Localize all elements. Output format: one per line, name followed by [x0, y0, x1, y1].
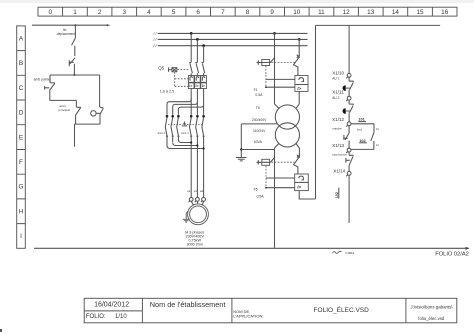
relay F5 magnetic box — [295, 174, 309, 182]
contactor km12 pole 1 — [166, 115, 169, 118]
svg-text:102: 102 — [359, 138, 366, 143]
terminal X1/13 — [347, 148, 351, 152]
svg-text:4: 4 — [147, 9, 151, 16]
fuse disconnect Q6 left pole — [257, 60, 271, 64]
svg-text:km1 1: km1 1 — [181, 131, 189, 135]
svg-text:stop bouton: stop bouton — [332, 153, 347, 157]
node junction on rail1 — [75, 24, 77, 26]
mech link dashed Q5 — [177, 69, 189, 71]
svg-text:X1/14: X1/14 — [333, 169, 345, 174]
node merge dots — [190, 141, 205, 149]
svg-text:u1: u1 — [187, 189, 191, 193]
relay F5 thermal box I> — [295, 182, 309, 190]
label 101 — [358, 117, 365, 122]
svg-text:10: 10 — [293, 9, 301, 16]
wire branch 102 bottom — [351, 148, 374, 150]
Q5 thermal trip boxes I> — [188, 83, 194, 89]
terminal X1/11 — [347, 96, 351, 100]
svg-text:X1/13: X1/13 — [332, 143, 344, 148]
svg-text:principal: principal — [59, 108, 71, 112]
svg-text:I>: I> — [202, 84, 205, 88]
svg-text:6: 6 — [196, 9, 200, 16]
label F1 — [254, 88, 264, 97]
label km12 — [158, 131, 166, 135]
key switch head — [91, 111, 96, 116]
mech link dashed secondary — [272, 161, 295, 163]
motor terminal V1 — [196, 198, 200, 202]
wire swap link pole2 — [173, 143, 198, 146]
contactor km11 pole 3 — [202, 115, 205, 118]
label Q5 — [158, 65, 164, 70]
label X1/12 — [332, 117, 344, 122]
label 110/24V — [253, 129, 266, 133]
wire trip line 3 — [266, 177, 295, 179]
svg-text:16/04/2012: 16/04/2012 — [94, 302, 129, 309]
svg-text:14: 14 — [392, 9, 400, 16]
title block table — [84, 298, 457, 323]
trip linkage dashed upper — [265, 66, 267, 87]
label X1/10 — [332, 71, 344, 76]
wire breaker outputs down — [191, 89, 203, 115]
svg-text:5: 5 — [172, 9, 176, 16]
wire control top rail — [316, 24, 441, 26]
emergency stop AU2 mushroom — [343, 108, 346, 114]
svg-text:F: F — [19, 159, 23, 166]
label pin 14 — [376, 144, 379, 147]
svg-text:G: G — [19, 184, 24, 191]
ground earth motor — [183, 219, 190, 222]
svg-text:12: 12 — [343, 9, 351, 16]
svg-text:v1: v1 — [194, 189, 198, 193]
wire chain drop — [348, 25, 350, 73]
svg-text:arrêt pointe: arrêt pointe — [34, 78, 50, 82]
wire cross branch to KM left pole1 — [167, 99, 191, 115]
pushbutton marche — [343, 126, 349, 149]
wire left branch — [49, 75, 51, 83]
source arrow marks L1 L2 L3 — [153, 32, 157, 47]
svg-text:13: 13 — [367, 9, 375, 16]
screenshot top band — [0, 0, 474, 3]
label arrêt pointe — [34, 78, 50, 82]
motor M1 double circle — [188, 204, 209, 225]
label AU 2 — [332, 96, 339, 100]
label X1/11 — [332, 90, 344, 95]
svg-text:FOLIO 02/A2: FOLIO 02/A2 — [435, 251, 469, 257]
Q5 magnetic trip boxes — [188, 76, 194, 83]
wire primary left — [275, 33, 279, 108]
breaker Q5 pole 2 — [195, 63, 198, 76]
svg-text:9: 9 — [270, 9, 274, 16]
wire phase L1 — [158, 32, 308, 34]
svg-text:7: 7 — [221, 9, 225, 16]
wire rail1 — [32, 24, 109, 26]
emergency stop AU1 mushroom — [343, 85, 346, 91]
mech interlock symbol — [182, 122, 186, 126]
label 63VA — [254, 140, 263, 144]
svg-text:w1: w1 — [200, 189, 204, 193]
contactor km12 pole 3 — [177, 115, 180, 118]
svg-text:16: 16 — [441, 9, 449, 16]
svg-text:0,5A: 0,5A — [257, 195, 265, 199]
label marche — [332, 127, 342, 131]
breaker Q5 pole 1 — [189, 63, 192, 76]
terminal X1/14 — [347, 172, 351, 176]
svg-text:I>: I> — [297, 86, 301, 91]
emergency stop AU1 contact — [349, 77, 353, 96]
wire ground to secondary — [241, 149, 274, 151]
wire tail — [74, 124, 76, 147]
pushbutton stop NC — [346, 152, 353, 172]
NC contact S4 arrêt principal — [76, 100, 81, 124]
transformer T6 secondary winding — [275, 123, 299, 147]
sheet column ruler 0-16 — [38, 7, 457, 16]
label X1/14 — [333, 169, 345, 174]
relay F1 thermal box I> — [295, 85, 308, 92]
motor terminal U1 — [189, 198, 193, 202]
wire rail3 — [75, 123, 101, 125]
svg-text:110/24V: 110/24V — [253, 129, 266, 133]
Q5 handle — [169, 67, 172, 72]
svg-text:déplacement: déplacement — [57, 32, 75, 36]
fuse disconnect F5 pole — [257, 160, 271, 164]
label fin déplacement — [57, 28, 75, 36]
node junction rail2 — [74, 74, 76, 76]
wire branch 101 top — [351, 123, 374, 125]
svg-text:101: 101 — [358, 117, 365, 122]
label 230/400V — [252, 118, 267, 122]
wire control feed — [299, 25, 315, 199]
svg-text:FOLIO_ÉLEC.VSD: FOLIO_ÉLEC.VSD — [314, 305, 370, 314]
node taps to Q5 — [190, 32, 205, 47]
svg-text:0: 0 — [49, 9, 53, 16]
svg-text:AU 2: AU 2 — [332, 96, 339, 100]
svg-text:63VA: 63VA — [254, 140, 263, 144]
wire cross branch to KM left pole3 — [178, 105, 203, 115]
relay F1 magnetic box — [295, 76, 308, 85]
key switch S5 — [100, 107, 104, 124]
switch X mark secondary — [297, 155, 300, 158]
label 1,6 à 2,5 — [160, 89, 174, 93]
wire Q5 drops — [191, 33, 203, 62]
label pin 13 — [376, 128, 379, 131]
svg-text:I>: I> — [297, 185, 301, 190]
wire cross branch to KM left pole2 — [173, 102, 198, 115]
wire ground drop — [240, 124, 242, 157]
svg-text:230/400V: 230/400V — [252, 118, 267, 122]
label u1 v1 w1 — [187, 189, 204, 193]
sheet bottom line with arrow — [34, 247, 469, 249]
node tap L1 — [273, 32, 276, 35]
motor PE lead — [186, 211, 188, 219]
transformer T6 primary winding — [275, 105, 299, 129]
svg-text:I>: I> — [196, 84, 199, 88]
svg-text:I: I — [20, 233, 22, 240]
svg-text:A: A — [19, 36, 24, 43]
wire label F1B12 — [346, 251, 355, 255]
wire rail2 — [50, 74, 100, 76]
wire secondary left — [275, 144, 279, 248]
node dash end lower — [265, 187, 267, 189]
svg-text:1: 1 — [73, 9, 77, 16]
wire trip line 2 — [266, 86, 295, 88]
motor terminal W1 — [202, 198, 206, 202]
wire secondary right + disconnect blade — [294, 144, 300, 175]
label motor text — [185, 231, 204, 247]
folio reference text — [435, 251, 469, 257]
NC pushbutton S3 arrêt — [45, 83, 55, 101]
label T6 — [256, 106, 260, 110]
svg-text:AU 1: AU 1 — [332, 77, 339, 81]
svg-text:E: E — [19, 134, 23, 141]
aux contact km1 — [371, 132, 374, 149]
pushbutton contact S2 — [69, 58, 75, 75]
wire branch right — [373, 124, 375, 133]
svg-text:3: 3 — [123, 9, 127, 16]
svg-text:F5: F5 — [254, 187, 258, 191]
wire terminal leads — [191, 201, 203, 205]
svg-text:B: B — [19, 60, 23, 67]
svg-text:J:\visio\bons gabarits\: J:\visio\bons gabarits\ — [410, 305, 453, 310]
svg-text:F1B12: F1B12 — [346, 251, 355, 255]
svg-text:14: 14 — [376, 144, 379, 147]
svg-text:3000 t/mn: 3000 t/mn — [186, 243, 202, 247]
switch X mark — [297, 55, 300, 58]
svg-text:I>: I> — [189, 84, 192, 88]
svg-text:13: 13 — [376, 128, 379, 131]
node tap L2 — [298, 38, 301, 41]
node ground link — [240, 148, 242, 150]
label stop bouton — [332, 153, 347, 157]
wire chain tail — [348, 175, 350, 223]
svg-text:2: 2 — [98, 9, 102, 16]
wire phase L3 — [158, 45, 308, 47]
label km11 — [181, 131, 189, 135]
label F5 — [254, 187, 265, 198]
wire swap link pole3-to-1 — [178, 140, 191, 143]
wire right branch — [99, 75, 101, 107]
wire phase L2 — [158, 38, 308, 40]
wire rail2b — [50, 99, 77, 101]
limit switch contact S1 — [72, 38, 76, 56]
wire trip line 1 — [266, 78, 295, 80]
wire primary right + disconnect blade — [294, 39, 300, 75]
off-page squiggle — [333, 251, 342, 253]
label arrêt principal — [59, 104, 71, 112]
svg-text:X1/10: X1/10 — [332, 71, 344, 76]
trip linkage dashed lower — [265, 166, 267, 188]
svg-text:FOLIO:: FOLIO: — [86, 314, 106, 320]
ground earth transformer — [236, 158, 247, 161]
svg-text:T6: T6 — [256, 106, 260, 110]
svg-text:marche: marche — [332, 127, 342, 131]
screenshot bottom-left artifact — [0, 329, 2, 332]
svg-text:11: 11 — [318, 9, 325, 16]
contactor km11 pole 2 — [196, 115, 199, 118]
label km1 — [357, 128, 362, 132]
svg-text:folio_élec.vsd: folio_élec.vsd — [418, 316, 445, 321]
mech interlock dashed — [168, 124, 202, 126]
terminal X1/10 — [347, 73, 351, 77]
label 102 rotated — [335, 192, 339, 198]
svg-text:1,6 à 2,5: 1,6 à 2,5 — [160, 89, 174, 93]
svg-text:0,5A: 0,5A — [255, 93, 263, 97]
contactor km12 pole 2 — [171, 115, 174, 118]
node dash end — [265, 86, 267, 88]
label 102 — [359, 138, 366, 143]
svg-text:X1/12: X1/12 — [332, 117, 344, 122]
wire trip line 4 — [266, 187, 295, 189]
terminal X1/12 — [347, 122, 351, 126]
svg-text:C: C — [19, 85, 24, 92]
emergency stop AU2 contact — [349, 100, 353, 122]
mech link dashed primary — [272, 61, 295, 63]
wire relay to transformer — [296, 91, 299, 108]
svg-text:Nom de l'établissement: Nom de l'établissement — [150, 300, 226, 309]
svg-text:km1: km1 — [357, 128, 362, 132]
wire drop from rail1 — [74, 25, 76, 38]
breaker Q5 pole 3 — [202, 63, 205, 76]
contactor km11 pole 1 — [190, 115, 193, 118]
svg-text:L'APPLICATION:: L'APPLICATION: — [233, 314, 263, 319]
svg-text:X1/11: X1/11 — [332, 90, 344, 95]
svg-text:15: 15 — [416, 9, 424, 16]
svg-text:F1: F1 — [254, 88, 258, 92]
svg-text:H: H — [19, 208, 24, 215]
sheet row ruler A-I — [17, 26, 26, 248]
svg-text:Q5: Q5 — [158, 65, 164, 70]
svg-text:8: 8 — [246, 9, 250, 16]
wire primary tap — [241, 123, 277, 125]
wire swap link pole1-to-3 — [167, 139, 204, 149]
svg-text:km1 2: km1 2 — [158, 131, 166, 135]
label AU 1 — [332, 77, 339, 81]
svg-text:1/10: 1/10 — [115, 314, 127, 320]
svg-text:D: D — [19, 110, 24, 117]
label X1/13 — [332, 143, 344, 148]
